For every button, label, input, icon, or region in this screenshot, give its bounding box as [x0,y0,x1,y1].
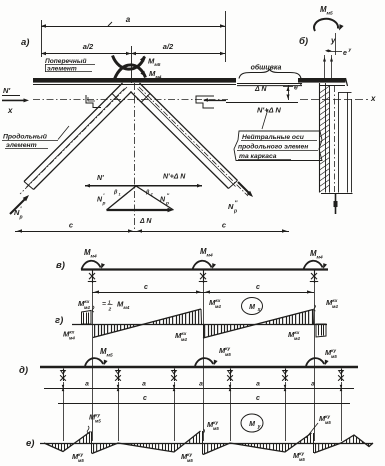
support row d #1 [63,369,65,382]
svg-text:p: p [102,202,106,207]
svg-text:2: 2 [108,307,112,313]
vertical axis line x=92 row d [92,367,94,403]
svg-text:N'+Δ N: N'+Δ N [163,174,186,181]
svg-text:a/2: a/2 [163,42,174,51]
squiggle s right [314,305,316,311]
moment arc M_m5 row d 1 [85,358,103,366]
vertical line x=63 to row e [63,403,65,441]
vertical line x=341 to row e [341,403,343,441]
squiggle s row e 2 [204,429,205,433]
svg-text:c: c [256,395,260,402]
a dim tick #2 [117,385,120,389]
svg-text:x: x [370,94,376,103]
support row v #1 [92,271,94,284]
left diagonal member [24,83,123,182]
svg-text:p: p [233,209,237,215]
svg-text:г): г) [55,315,63,326]
svg-text:a: a [199,381,203,388]
vertical line x=230 to row e [230,403,232,441]
svg-text:y: y [348,48,352,53]
squiggle s left [92,306,94,312]
baseline row e [40,443,373,445]
svg-text:Продольный: Продольный [3,133,48,141]
vertical support line x=230 row d [230,382,232,403]
Mx diagram span1 slope [93,309,201,338]
force triangle N line [85,185,202,187]
right diagonal axis line [139,87,248,196]
dimension c bottom left [15,231,135,233]
vertical support line x=63 row d [63,382,65,403]
longitudinal element top line [237,83,302,85]
svg-text:Δ N: Δ N [254,86,267,93]
vertical axis line x=203 rows v-d [203,283,205,366]
moment arc M_m5 row d 3 [306,358,324,366]
center axis vertical [134,83,136,232]
x axis line [33,99,228,101]
moment arc M_m5 row d 2 [195,358,213,366]
support row v #3 [314,271,316,284]
step bracket right with dN arrow [196,96,214,108]
vertical line x=118 to row e [118,403,120,441]
triangle base dN vector [107,209,170,211]
column axis verticals [324,55,326,78]
svg-text:Поперечный: Поперечный [45,57,86,65]
dimension e^x [288,85,290,100]
svg-text:e: e [294,85,298,92]
Mx diagram right stub [316,324,326,337]
vertical axis line x=314 row d [314,367,316,403]
svg-text:p: p [19,215,23,221]
beam cross element left part [33,78,236,83]
svg-text:β: β [113,190,118,196]
svg-text:″: ″ [167,194,170,200]
a dim tick #3 [173,385,176,389]
svg-text:c: c [144,284,148,291]
column bottom line [321,193,353,195]
dimension c row v left [92,292,203,294]
vertical line x=314 to row e [314,403,316,441]
Mx diagram span2 slope [203,310,313,339]
a dim tick #6 [340,385,343,389]
support row d #6 [341,369,343,382]
support row d #4 [230,369,232,382]
a dim tick #4 [229,385,232,389]
a dim tick #1 [62,385,65,389]
svg-text:х: х [257,307,261,313]
triangle left side [107,186,137,210]
beam row d [40,366,358,368]
vertical line x=174 to row e [174,403,176,441]
svg-text:N': N' [97,175,104,182]
vertical support line x=285 row d [285,382,287,403]
svg-text:д): д) [19,365,28,376]
svg-text:x: x [7,106,13,115]
vertical support line x=174 row d [174,382,176,403]
step bracket left [86,95,101,108]
tick at center of a/2 [131,46,133,83]
Mx circle label [242,298,263,315]
Mx diagram jump at center support [200,309,203,324]
beam underline right [320,85,345,87]
Mx diagram left stub [82,311,92,325]
svg-text:а): а) [21,37,29,48]
My diagram row e [44,432,91,452]
My circle label [241,414,263,432]
svg-text:у: у [257,424,261,430]
longitudinal element bottom line [226,102,298,104]
svg-text:N'+Δ N: N'+Δ N [257,106,281,115]
a dim tick #5 [284,385,287,389]
beam cross element right part [298,78,346,83]
svg-text:продольного элемен: продольного элемен [238,143,308,151]
vertical axis line x=314 rows v-d [314,283,316,366]
svg-text:N': N' [3,86,10,95]
svg-text:a: a [126,15,131,24]
beam bottom thin line [33,84,236,86]
moment bowtie M_m4 lower curve [115,65,146,79]
svg-text:a/2: a/2 [83,42,94,51]
moment arc M_m4 row v #3 [304,261,323,270]
svg-text:a: a [85,381,89,388]
vertical support line x=118 row d [118,382,120,403]
vertical axis line x=203 row d [203,367,205,403]
moment arc M_m4 row v #2 [193,261,212,270]
svg-text:M: M [249,421,255,428]
dimension line a/2 left [41,53,131,55]
dimension c bottom right [135,231,289,233]
obshivka brace [239,70,301,79]
triangle right side [136,186,174,210]
svg-text:a: a [142,381,146,388]
squiggle s row e 1 [87,426,89,434]
baseline row g [72,324,327,326]
svg-text:c: c [143,395,147,402]
vertical support line x=341 row d [341,382,343,403]
a dimension line row d [44,388,354,390]
force Np' arrow [10,198,26,214]
Mx diagram jump at right support [312,310,315,325]
svg-text:та каркаса: та каркаса [239,153,277,160]
beam row v [81,268,328,270]
moment arc M_m4 row v #1 [82,261,101,270]
dimension a extension line left [41,20,43,57]
column force arrow down [335,193,337,214]
vertical line x=203 to row e [203,403,205,441]
dimension a extension line right [225,11,227,62]
dimension line a/2 right [131,53,225,55]
svg-text:β: β [145,190,150,196]
svg-text:элемент: элемент [6,142,37,149]
svg-text:обшивка: обшивка [251,64,282,72]
svg-text:a: a [256,381,260,388]
svg-text:e: e [343,50,347,57]
dimension line a [41,26,225,28]
c dimension line row d [58,403,350,405]
svg-text:б): б) [299,36,308,47]
svg-text:M: M [249,304,255,311]
support row d #3 [174,369,176,382]
force Np'' arrow [238,182,250,194]
beam right end cap [346,78,348,86]
dimension c row v right [203,292,314,294]
svg-text:1: 1 [119,193,121,197]
right diagonal member [140,83,238,181]
svg-text:=: = [102,301,106,308]
moment bowtie M_m5 upper curve [113,56,145,70]
svg-text:c: c [256,284,260,291]
support row d #5 [285,369,287,382]
vertical axis line x=92 rows v-d [92,283,94,366]
vertical line x=92 to row e [92,403,94,441]
svg-text:p: p [165,202,169,207]
column section with hatching [319,83,321,193]
support row v #2 [203,271,205,284]
svg-text:в): в) [56,260,65,271]
moment arc M_m5 top right [314,19,338,31]
support row d #2 [118,369,120,382]
dimension e^y [329,51,342,53]
svg-text:x: x [299,83,303,88]
vertical line x=285 to row e [285,403,287,441]
svg-text:Δ N: Δ N [139,218,152,225]
svg-text:Нейтральные оси: Нейтральные оси [242,133,304,141]
left diagonal axis line [20,87,127,194]
svg-text:е): е) [26,438,34,449]
